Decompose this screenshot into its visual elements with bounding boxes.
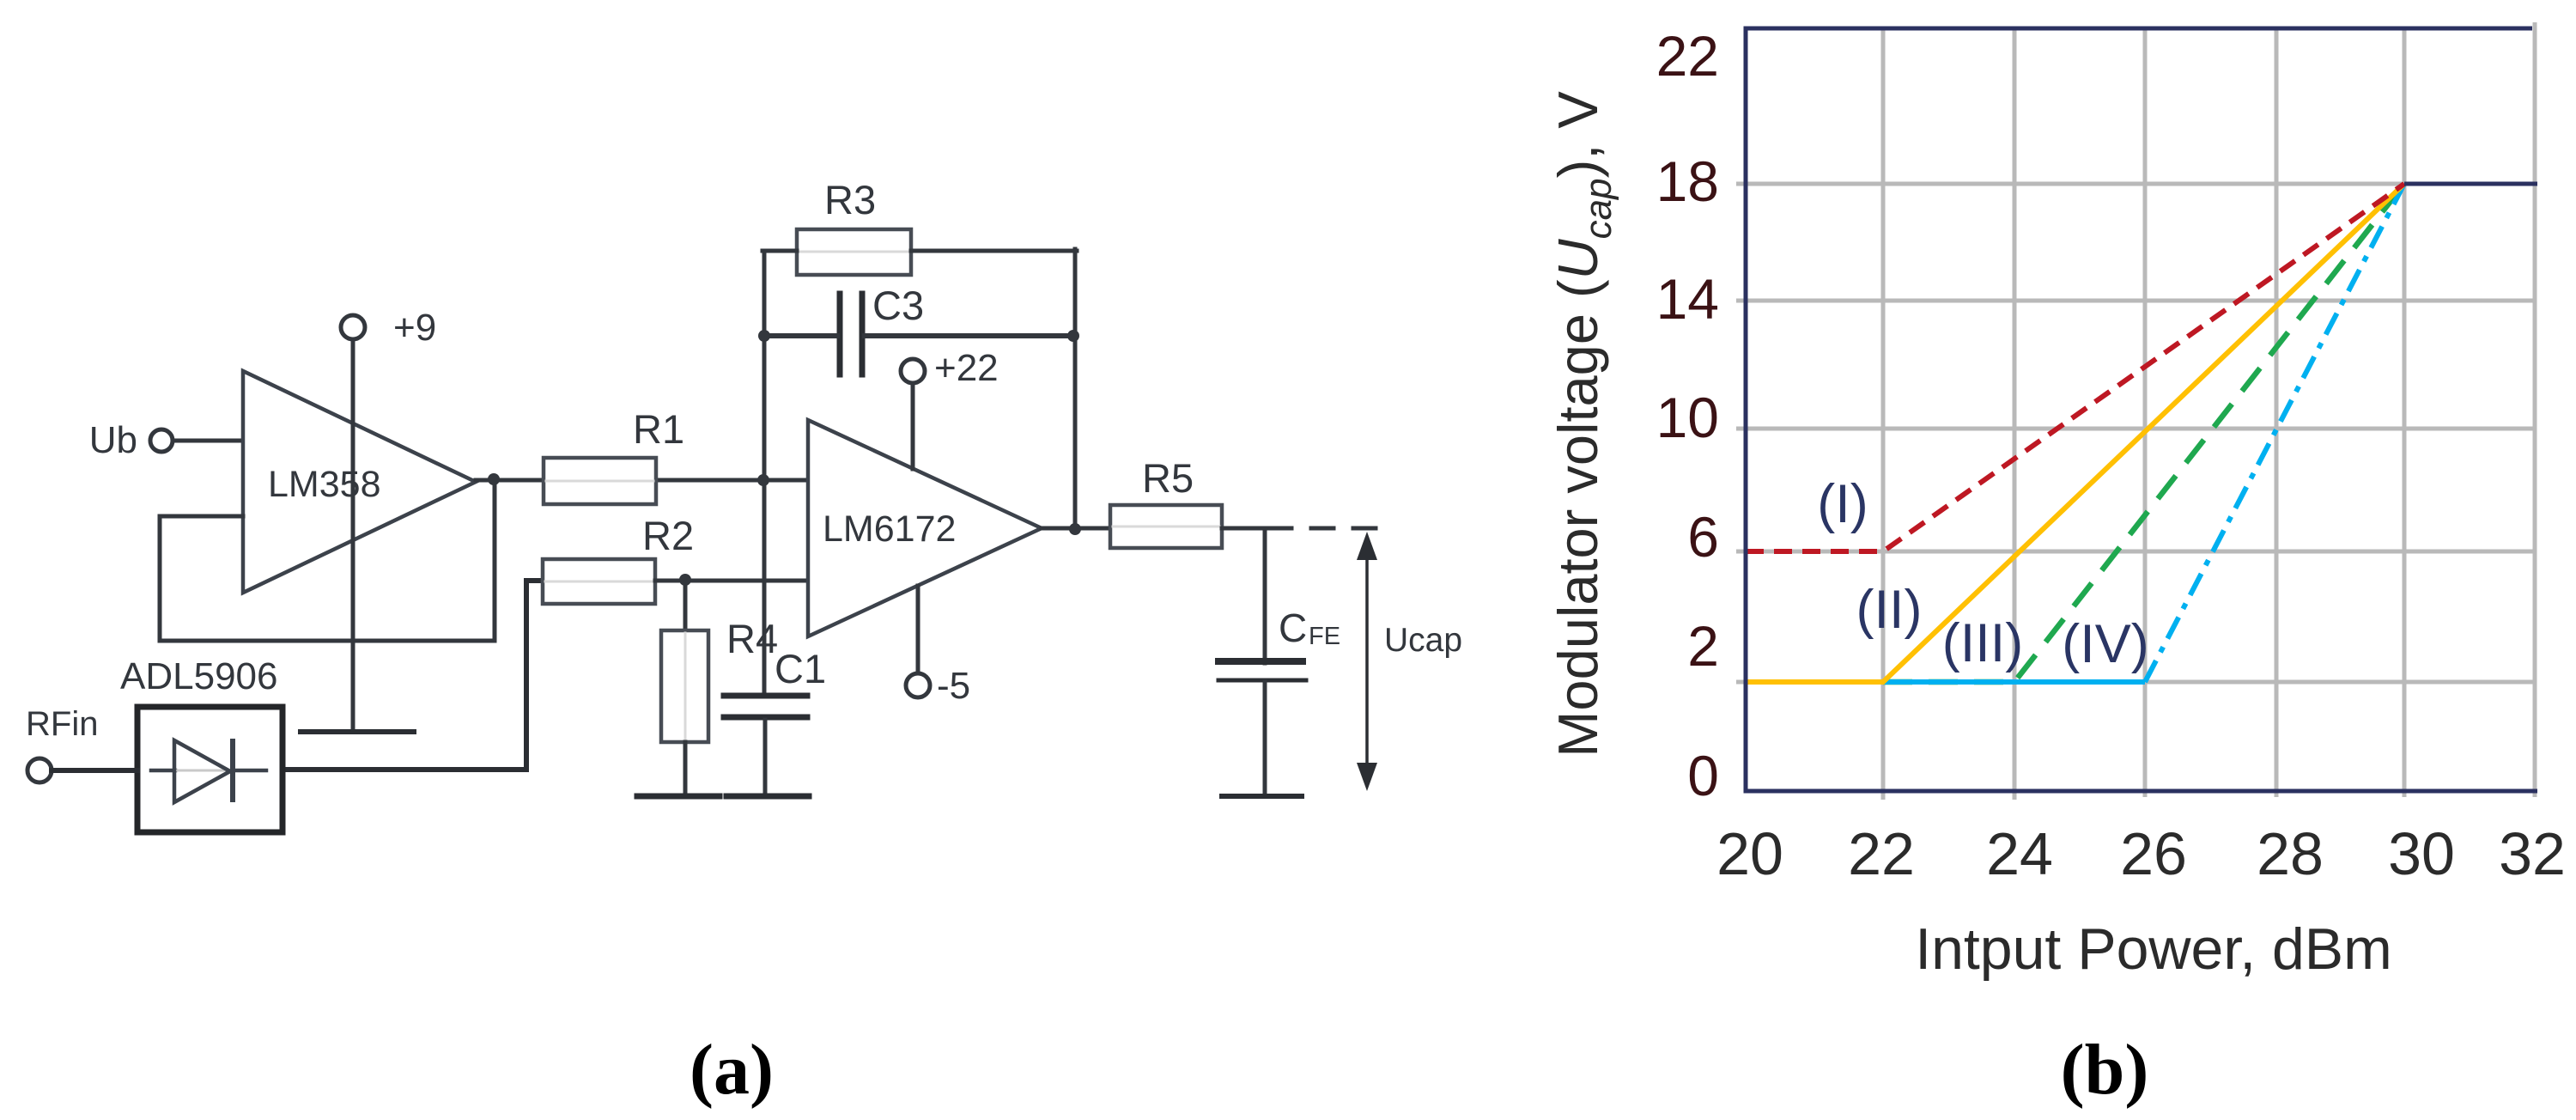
node junction R2 / R4 [679,574,691,586]
svg-text:18: 18 [1656,149,1719,213]
svg-text:(I): (I) [1817,474,1868,534]
curve saturation flat 18V navy [2404,182,2537,186]
svg-text:(II): (II) [1856,580,1923,640]
power terminal -5 [906,665,970,707]
svg-text:(III): (III) [1942,613,2023,673]
svg-text:LM6172: LM6172 [823,508,956,550]
wire -5 to LM6172 [916,586,920,673]
resistor R1 [544,406,684,504]
svg-text:R4: R4 [726,616,778,661]
svg-text:Ub: Ub [89,419,137,461]
wire R3 left to feedback leg [762,249,797,253]
op-amp U1 LM358 [243,371,476,593]
wire R4 to ground [683,742,688,794]
curve IV cyan dash-dot [1746,679,2145,685]
svg-text:30: 30 [2388,820,2455,887]
block ADL5906 RF detector [120,655,283,832]
capacitor CFE [1218,606,1340,680]
svg-text:R2: R2 [642,513,694,558]
svg-text:Ucap: Ucap [1384,622,1462,659]
svg-text:24: 24 [1986,820,2053,887]
resistor R3 [797,177,911,275]
wire RFin row: ADL5906 output to R2 [283,581,544,770]
svg-text:+9: +9 [393,307,436,349]
svg-text:RFin: RFin [26,705,98,743]
svg-text:R5: R5 [1142,455,1194,501]
svg-text:22: 22 [1656,24,1719,88]
svg-text:2: 2 [1687,614,1719,678]
svg-text:(a): (a) [690,1030,774,1110]
ground (LM358) [301,729,414,734]
wire C3 left [764,333,837,338]
svg-text:FE: FE [1309,623,1340,650]
op-amp U2 LM6172 [808,420,1042,636]
curve III green dashed [1883,184,2404,682]
svg-text:6: 6 [1687,505,1719,569]
svg-text:22: 22 [1848,820,1915,887]
capacitor C1 [724,646,826,717]
svg-text:26: 26 [2120,820,2187,887]
node Ub input terminal [89,419,173,461]
svg-text:R3: R3 [824,177,876,222]
wire junction to LM6172 upper input [763,478,808,483]
resistor R2 [543,513,694,604]
wire +22 to LM6172 [911,383,915,469]
svg-text:10: 10 [1656,386,1719,449]
wire dashed output node to Ucap arrow [1269,527,1393,531]
resistor R5 [1110,455,1222,548]
svg-text:32: 32 [2499,820,2566,887]
wire LM358 output to R1 and junction [476,478,763,483]
svg-text:R1: R1 [633,406,684,452]
capacitor C3 [840,283,924,374]
wire R2 right to LM6172 lower input [655,579,808,583]
svg-text:C3: C3 [872,283,924,328]
wire LM6172 output to R5 [1042,527,1112,531]
node junction LM6172 output / feedback [1069,523,1081,535]
wire LM358 feedback loop (output to inverting input) [160,479,495,641]
y tick labels [1656,24,1719,807]
wire feedback right leg (R3/C3 down to output) [1073,249,1078,529]
wire +9 supply down through LM358 to ground [351,339,355,731]
ground (C1) [726,794,809,800]
wire feedback left leg (R3/C3 node down to C1) [762,251,767,696]
svg-text:LM358: LM358 [268,464,380,505]
svg-text:Intput Power, dBm: Intput Power, dBm [1915,916,2392,982]
wire RFin to ADL5906 [52,768,137,773]
svg-text:28: 28 [2257,820,2324,887]
curve I dark red dashed [1746,184,2404,551]
svg-text:14: 14 [1656,267,1719,331]
power terminal +9 [341,307,436,349]
axis frame [1746,28,2537,791]
wire CFE bottom to ground [1263,682,1267,794]
wire R5 right, corner down to CFE [1222,528,1265,663]
resistor R4 [661,581,778,742]
power terminal +22 [901,347,999,389]
ground (CFE) [1222,794,1302,799]
node RFin input terminal [26,705,98,782]
node junction C3 left on feedback leg [758,330,770,342]
svg-text:0: 0 [1687,744,1719,807]
svg-text:-5: -5 [937,665,970,707]
ground (R4) [637,794,720,800]
node junction at LM358 output [488,473,500,485]
curve II yellow solid [1746,184,2404,682]
wire C1 bottom to ground [763,720,768,794]
svg-text:(b): (b) [2061,1030,2149,1110]
grid horizontal lines [1736,184,2536,682]
node Ucap measurement arrow [1357,532,1462,791]
wire R3 right to output leg [911,249,1077,253]
wire C3 right [865,333,1075,338]
svg-text:C1: C1 [775,646,826,691]
diode D1 inside ADL5906 [151,740,266,802]
grid vertical lines [1883,22,2535,800]
node junction C3 right on output leg [1067,330,1079,342]
svg-text:C: C [1279,606,1307,650]
svg-text:(IV): (IV) [2062,614,2148,674]
wire Ub to LM358 non-inverting input [173,439,245,443]
svg-text:+22: +22 [934,347,999,389]
node junction R1 / feedback / LM6172 input [757,474,769,486]
x tick labels [1716,820,2566,887]
svg-text:20: 20 [1716,820,1783,887]
svg-text:ADL5906: ADL5906 [120,655,277,697]
